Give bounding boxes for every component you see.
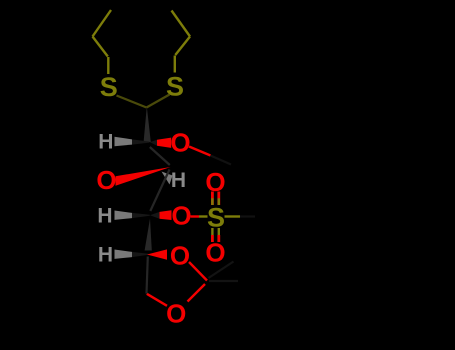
bond C4-H wedge (gray half) bbox=[115, 211, 133, 220]
bond O5-C6 red bbox=[147, 294, 167, 306]
svg-text:S: S bbox=[100, 72, 118, 102]
bond C2-H wedge (gray half) bbox=[115, 137, 133, 146]
double bond S=O lower lines olive halves bbox=[212, 228, 218, 235]
bond S-CH3 sulfur half bbox=[225, 215, 241, 217]
bond C4-H wedge (carbon half) bbox=[132, 213, 150, 218]
bond C3-O2 bold wedge (red) bbox=[116, 167, 171, 186]
bond O1-CH3 carbon half bbox=[211, 156, 232, 165]
wire: left ethyl S-CH2 stub bbox=[107, 57, 109, 74]
bond S(left)-C1 bbox=[117, 96, 147, 108]
wire: right ethyl S-CH2 stub bbox=[174, 56, 176, 73]
bond O4-Cketal red half bbox=[189, 262, 207, 281]
bond C2-O1 wedge (red half) bbox=[157, 138, 171, 148]
svg-text:S: S bbox=[166, 71, 184, 101]
double bond S=O lower lines red halves bbox=[212, 235, 218, 242]
wire: right ethyl CH2 diagonal bbox=[175, 37, 190, 56]
svg-text:O: O bbox=[96, 165, 116, 195]
double bond S=O upper olive halves bbox=[212, 198, 218, 205]
bond C1-C2 bold wedge (down) bbox=[144, 107, 151, 143]
bond C3-H wedge (gray) bbox=[162, 172, 173, 185]
bond C3-C4 backbone bbox=[150, 170, 169, 212]
svg-text:H: H bbox=[97, 205, 112, 228]
svg-text:O: O bbox=[166, 299, 186, 329]
wire: left ethyl CH3 top segment bbox=[93, 10, 112, 37]
wire: right ethyl CH3 top segment bbox=[172, 11, 191, 37]
bond O3-S red half bbox=[191, 215, 200, 217]
bond Cketal-O5 red bbox=[188, 284, 206, 302]
svg-text:H: H bbox=[171, 169, 186, 192]
bond O1-CH3 red half bbox=[189, 147, 211, 156]
svg-text:H: H bbox=[98, 244, 113, 267]
svg-text:O: O bbox=[170, 240, 190, 270]
double bond S=O upper left line bbox=[211, 192, 214, 206]
bond C2-O1 wedge (carbon half) bbox=[150, 140, 157, 146]
bond C2-C3 backbone bbox=[150, 147, 170, 165]
svg-text:O: O bbox=[205, 238, 225, 268]
bond C5-O4 wedge (red) bbox=[147, 249, 167, 259]
bond Cketal-CH3 right bbox=[209, 280, 238, 282]
svg-text:H: H bbox=[98, 131, 113, 154]
bond S-CH3 carbon half bbox=[240, 215, 255, 217]
bond C6-C5 ring bond bbox=[147, 257, 148, 294]
svg-text:S: S bbox=[207, 202, 225, 232]
double bond S=O upper right line bbox=[217, 192, 220, 206]
bond C4-O3 wedge (carbon half) bbox=[150, 212, 160, 219]
bond O3-S sulfur half bbox=[199, 215, 208, 217]
bond C4-O3 wedge (red half) bbox=[160, 210, 172, 220]
bond C5-H wedge (carbon half) bbox=[132, 252, 149, 257]
bond C4-C5 bold wedge backbone bbox=[145, 219, 152, 251]
bond Cketal-CH3 upper right bbox=[209, 262, 234, 279]
svg-text:O: O bbox=[171, 201, 191, 231]
svg-text:O: O bbox=[205, 167, 225, 197]
svg-text:O: O bbox=[170, 128, 190, 158]
bond C2-H wedge (carbon half) bbox=[132, 139, 150, 144]
bond C5-H wedge (gray half) bbox=[115, 250, 133, 259]
bond S(right)-C1 bbox=[147, 95, 170, 108]
wire: left ethyl CH2 diagonal bbox=[93, 37, 108, 57]
